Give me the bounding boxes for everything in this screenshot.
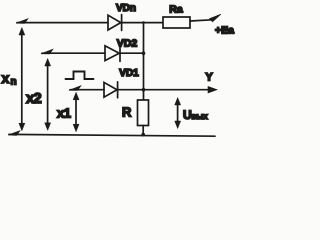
svg-text:+Ea: +Ea	[215, 25, 234, 37]
arrowhead bottom rail (left)	[8, 131, 20, 136]
wire Ra to +Ea	[190, 20, 212, 21]
svg-text:n: n	[11, 77, 17, 88]
diode VD1	[104, 82, 117, 97]
wire VDn cathode to node	[122, 22, 163, 24]
wire R to bottom rail	[142, 126, 144, 136]
wire bottom rail	[9, 134, 215, 136]
measure arrow xn	[21, 31, 23, 127]
arrowhead Y	[208, 86, 217, 93]
node junction Y-bus	[142, 88, 146, 92]
measure arrow x2	[47, 62, 49, 127]
measure arrow Uvyh	[177, 101, 179, 125]
arrowhead input xn (left)	[16, 19, 28, 24]
svg-text:R: R	[122, 105, 132, 120]
svg-text:VD1: VD1	[119, 68, 139, 79]
wire VD2 input branch	[42, 52, 105, 54]
svg-text:VDn: VDn	[116, 3, 136, 14]
resistor Ra	[163, 17, 190, 28]
diode VD2	[105, 46, 119, 61]
svg-text:x2: x2	[26, 90, 41, 107]
node junction R-rail	[141, 133, 145, 137]
svg-text:Y: Y	[205, 72, 213, 84]
wire vertical bus	[143, 23, 145, 100]
arrowhead +Ea	[210, 14, 222, 22]
arrowhead input x2 branch (left)	[41, 49, 53, 54]
pulse waveform symbol	[66, 72, 94, 80]
wire VD2 cathode to bus	[120, 52, 144, 54]
svg-text:x1: x1	[57, 106, 71, 121]
node junction VD2-bus	[142, 51, 146, 55]
wire top branch xn input	[17, 22, 108, 24]
resistor R	[138, 100, 149, 126]
measure arrow x1	[75, 96, 77, 128]
arrowhead input x1 branch (left)	[69, 86, 81, 91]
diode VDn	[108, 15, 121, 30]
svg-text:x: x	[2, 70, 10, 86]
wire VD1 input branch	[70, 89, 104, 91]
node junction top T	[142, 21, 145, 24]
svg-text:вых: вых	[192, 112, 209, 121]
wire output Y	[118, 89, 212, 91]
svg-text:U: U	[183, 108, 192, 122]
svg-text:Ra: Ra	[169, 4, 183, 16]
svg-text:VD2: VD2	[117, 38, 138, 50]
